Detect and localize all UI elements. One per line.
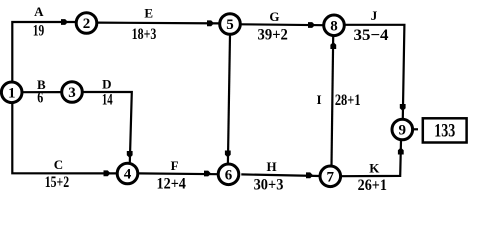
svg-text:A: A (34, 4, 44, 19)
svg-text:J: J (371, 8, 378, 23)
svg-text:9: 9 (399, 123, 407, 139)
svg-text:35−4: 35−4 (354, 26, 389, 44)
svg-text:H: H (266, 159, 276, 174)
svg-text:12+4: 12+4 (156, 176, 186, 193)
svg-text:I: I (316, 92, 321, 107)
svg-text:3: 3 (68, 85, 76, 101)
svg-text:7: 7 (327, 169, 335, 185)
svg-text:8: 8 (330, 18, 338, 34)
svg-text:26+1: 26+1 (358, 177, 387, 194)
svg-text:18+3: 18+3 (132, 25, 157, 43)
svg-text:C: C (54, 157, 63, 172)
svg-text:E: E (144, 5, 153, 20)
svg-text:1: 1 (8, 85, 16, 101)
svg-text:4: 4 (124, 167, 132, 183)
svg-text:K: K (369, 161, 380, 176)
svg-text:2: 2 (83, 16, 91, 32)
svg-text:F: F (171, 158, 179, 173)
svg-text:6: 6 (225, 167, 233, 183)
svg-text:19: 19 (33, 23, 44, 40)
svg-text:14: 14 (102, 90, 113, 108)
svg-text:6: 6 (37, 89, 43, 107)
svg-text:28+1: 28+1 (335, 91, 361, 109)
svg-text:15+2: 15+2 (45, 173, 69, 191)
svg-text:5: 5 (226, 17, 234, 33)
svg-text:133: 133 (434, 119, 455, 141)
svg-text:G: G (269, 9, 279, 24)
svg-text:30+3: 30+3 (254, 176, 284, 194)
svg-text:39+2: 39+2 (258, 26, 288, 44)
